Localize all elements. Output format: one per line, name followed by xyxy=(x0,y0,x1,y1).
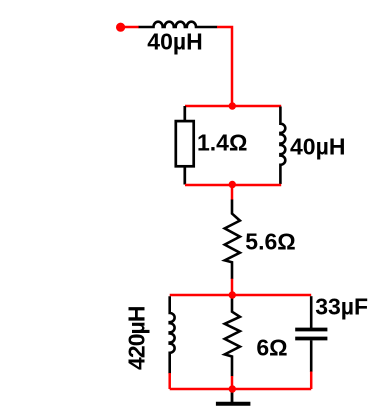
wire R3 to bottom rail xyxy=(231,376,234,389)
wire L1 to top of parallel box 1 xyxy=(217,27,232,106)
wire top rail of parallel box 2 xyxy=(170,294,312,297)
svg-text:40µH: 40µH xyxy=(290,134,345,160)
resistor R3 6 ohm (vertical zigzag, middle branch) xyxy=(225,296,240,376)
node C (bottom of parallel box 1) xyxy=(229,181,236,188)
wire node C down to resistor R2 xyxy=(231,185,234,200)
svg-text:1.4Ω: 1.4Ω xyxy=(197,130,247,156)
node E (bottom of parallel box 2) xyxy=(229,385,236,392)
wire right branch lower corner of box 2 xyxy=(310,372,313,390)
svg-text:40µH: 40µH xyxy=(147,29,202,55)
node A (input terminal dot) xyxy=(116,23,125,32)
wire bottom rail of parallel box 2 xyxy=(170,388,312,391)
wire bottom rail of parallel box 1 xyxy=(185,184,281,187)
wire input node to inductor L1 xyxy=(121,26,139,29)
svg-text:6Ω: 6Ω xyxy=(256,335,287,361)
svg-text:33µF: 33µF xyxy=(315,294,368,320)
node D (top of parallel box 2) xyxy=(229,291,236,298)
svg-text:5.6Ω: 5.6Ω xyxy=(245,229,295,255)
resistor R2 5.6 ohm (vertical zigzag) xyxy=(225,200,240,280)
ground xyxy=(231,390,234,402)
node B (top of parallel box 1) xyxy=(229,102,236,109)
wire top rail of parallel box 1 xyxy=(185,105,281,108)
svg-text:420µH: 420µH xyxy=(123,306,149,371)
resistor R1 1.4 ohm (box style, left branch) xyxy=(183,106,186,121)
wire R2 down to top of parallel box 2 xyxy=(231,279,234,295)
inductor L3 420uH (vertical coil, left branch) xyxy=(170,296,175,374)
capacitor C1 33uF (right branch) xyxy=(310,296,313,328)
wire left branch lower corner of box 2 xyxy=(168,373,171,389)
inductor L1 40uH (horizontal coil) xyxy=(139,22,218,27)
inductor L2 40uH (vertical coil, right branch) xyxy=(280,107,285,185)
